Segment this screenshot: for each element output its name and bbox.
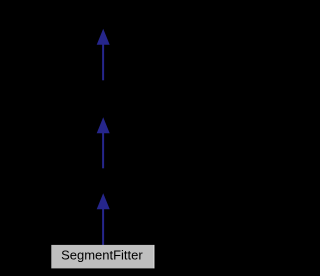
svg-text:SegmentFitter: SegmentFitter <box>61 247 143 262</box>
inheritance arrow 1 (top) <box>97 29 110 81</box>
inheritance arrow 3 (bottom) <box>97 193 110 245</box>
class node SegmentFitter <box>51 245 154 269</box>
inheritance arrow 2 (middle) <box>97 117 110 168</box>
